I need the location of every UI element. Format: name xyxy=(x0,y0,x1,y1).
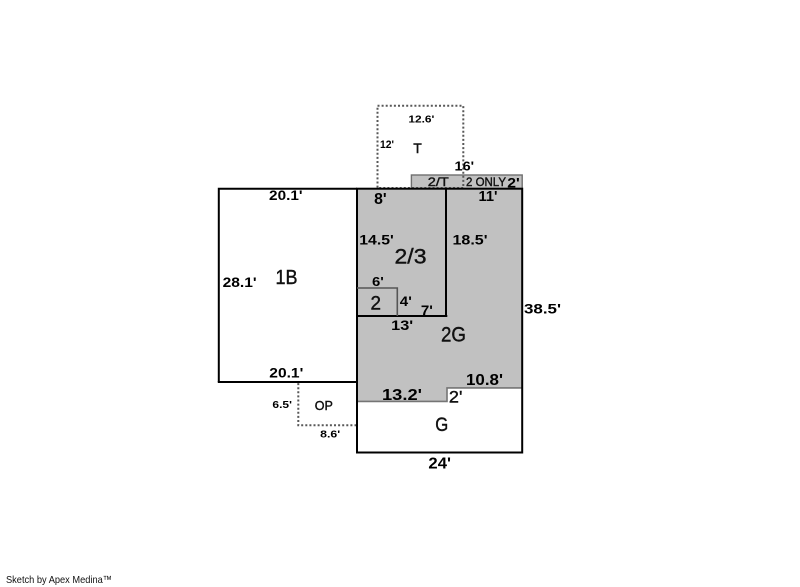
svg-text:11': 11' xyxy=(479,189,498,205)
svg-text:1B: 1B xyxy=(276,267,298,289)
area main footprint black rectangle (G/2G outer) xyxy=(357,189,522,453)
svg-text:2/T: 2/T xyxy=(428,175,450,189)
svg-text:13': 13' xyxy=(391,317,413,333)
svg-text:2': 2' xyxy=(507,175,520,191)
wire 2/3 right edge xyxy=(445,189,447,316)
svg-text:12': 12' xyxy=(380,139,394,151)
svg-text:T: T xyxy=(413,140,422,156)
area 2G gray fill polygon xyxy=(357,189,522,402)
svg-text:2 ONLY: 2 ONLY xyxy=(466,175,506,189)
wire gray stepped bottom edge of 2G xyxy=(357,388,522,402)
area OP dotted outline xyxy=(298,382,357,425)
svg-text:18.5': 18.5' xyxy=(453,231,488,247)
svg-text:10.8': 10.8' xyxy=(466,372,503,389)
svg-text:28.1': 28.1' xyxy=(223,274,257,290)
area T dotted outline xyxy=(378,106,464,188)
svg-text:38.5': 38.5' xyxy=(524,300,561,316)
area 1B outline (left, top, partial bottom) xyxy=(219,189,357,382)
area 2/T strip (gray fill) xyxy=(411,175,522,189)
svg-text:20.1': 20.1' xyxy=(269,187,303,203)
wire 1B bottom solid segment xyxy=(218,381,357,383)
svg-text:8.6': 8.6' xyxy=(320,430,340,441)
svg-text:16': 16' xyxy=(455,160,475,174)
svg-text:24': 24' xyxy=(428,456,451,473)
wire 2/3 bottom edge xyxy=(356,315,447,317)
svg-text:12.6': 12.6' xyxy=(408,113,434,125)
svg-text:6': 6' xyxy=(372,275,384,289)
svg-text:G: G xyxy=(435,415,448,436)
svg-text:7': 7' xyxy=(421,302,433,318)
svg-text:OP: OP xyxy=(315,399,333,413)
svg-text:2: 2 xyxy=(371,294,382,315)
svg-text:8': 8' xyxy=(374,191,387,208)
svg-text:2': 2' xyxy=(449,388,463,407)
area 2 small box (gray outline) xyxy=(357,288,397,316)
svg-text:6.5': 6.5' xyxy=(272,400,292,411)
svg-text:2/3: 2/3 xyxy=(395,246,427,269)
svg-text:Sketch by Apex Medina™: Sketch by Apex Medina™ xyxy=(6,574,112,586)
svg-text:14.5': 14.5' xyxy=(359,231,394,247)
svg-text:4': 4' xyxy=(400,293,412,309)
svg-text:13.2': 13.2' xyxy=(382,387,422,404)
svg-text:2G: 2G xyxy=(441,324,466,347)
svg-text:20.1': 20.1' xyxy=(269,364,303,380)
